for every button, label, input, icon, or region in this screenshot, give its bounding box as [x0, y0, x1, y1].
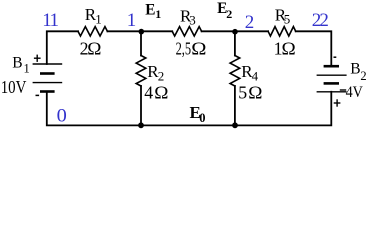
svg-text:2: 2	[158, 68, 165, 83]
battery B2 plate short lower	[324, 82, 339, 85]
svg-text:B: B	[12, 54, 22, 71]
svg-text:3: 3	[189, 12, 196, 27]
minus sign of value -4V	[340, 89, 346, 91]
svg-text:2,5: 2,5	[176, 39, 192, 59]
node 1 junction dot	[139, 29, 145, 35]
wire top rail between R3 and R5	[202, 30, 269, 32]
resistor R3	[172, 27, 201, 36]
svg-text:2: 2	[226, 7, 232, 21]
svg-text:2: 2	[319, 10, 329, 31]
wire R4 down to bottom rail	[234, 86, 236, 125]
svg-text:B: B	[350, 60, 360, 77]
svg-text:E: E	[145, 1, 155, 18]
wire right: top rail to battery B2 top	[296, 31, 332, 66]
wire node 2 down to R4	[234, 31, 236, 55]
svg-text:1: 1	[95, 11, 102, 26]
wire R2 down to bottom rail	[140, 86, 142, 125]
battery B2 plate long	[317, 74, 347, 76]
svg-text:4: 4	[252, 68, 259, 83]
svg-text:Ω: Ω	[282, 38, 296, 58]
junction dot below R2	[138, 122, 144, 128]
svg-text:Ω: Ω	[191, 39, 206, 59]
svg-text:5: 5	[284, 12, 291, 27]
node 2 junction dot	[232, 29, 238, 35]
resistor R4	[230, 56, 240, 87]
resistor R5	[268, 27, 296, 36]
svg-text:Ω: Ω	[248, 83, 262, 103]
svg-text:2: 2	[360, 69, 366, 83]
svg-text:1: 1	[24, 62, 30, 76]
polarity plus of B2	[334, 99, 341, 106]
polarity minus of B1	[36, 94, 40, 96]
battery B1 plate short	[40, 72, 55, 75]
battery B1 plate short bottom	[40, 90, 55, 93]
battery B1 plate long lower	[33, 82, 63, 84]
resistor R2	[136, 56, 146, 87]
svg-text:1: 1	[50, 10, 60, 31]
polarity plus of B1	[34, 55, 41, 62]
battery B2 plate short top	[324, 65, 339, 68]
junction dot below R4	[232, 122, 238, 128]
svg-text:2: 2	[245, 12, 255, 33]
resistor R1	[78, 27, 107, 36]
svg-text:0: 0	[57, 105, 67, 126]
svg-text:4V: 4V	[346, 84, 364, 101]
battery B1 plate long top	[33, 63, 63, 65]
svg-text:10V: 10V	[1, 77, 27, 97]
wire left: node 11 corner down to battery B1 top	[47, 31, 78, 64]
polarity minus of B2	[334, 56, 337, 58]
svg-text:5: 5	[238, 83, 247, 103]
wire node 1 down to R2	[140, 31, 142, 55]
svg-text:0: 0	[199, 111, 205, 125]
svg-text:1: 1	[155, 7, 161, 21]
battery B2 plate long bottom	[317, 91, 347, 93]
svg-text:1: 1	[127, 10, 137, 31]
svg-text:Ω: Ω	[87, 39, 101, 59]
wire bottom rail and battery stems	[47, 92, 332, 126]
wire top rail between R1 and R3	[107, 30, 172, 32]
svg-text:4: 4	[144, 83, 153, 103]
svg-text:Ω: Ω	[154, 83, 168, 103]
